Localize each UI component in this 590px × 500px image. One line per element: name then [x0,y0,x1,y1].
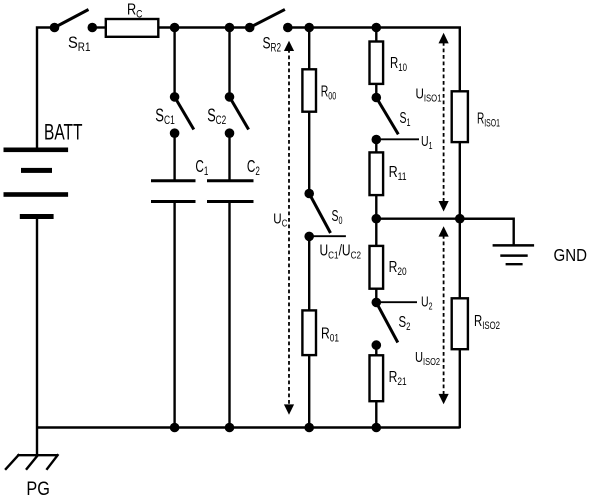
wire: mid rail to R20 [375,219,377,246]
node: top rail / R10 branch [372,23,382,33]
wire: S_R1 to R_C [92,26,106,28]
node: bottom rail / R21 [372,423,382,433]
svg-text:R11: R11 [389,164,407,183]
switch S_C1 [170,92,194,138]
svg-text:SR1: SR1 [68,33,91,54]
switch S0 [304,189,330,242]
wire: R00 to S0 [308,112,310,194]
node: top rail / C1 branch [170,23,180,33]
ground GND [493,245,534,264]
wire: S0 to R01 [308,236,310,310]
switch S_R1 [50,10,97,33]
node: mid rail / R11-R20 junction [372,214,382,224]
svg-text:S0: S0 [332,208,343,227]
wire: R10 to S1 [375,84,377,98]
resistor R_ISO2 [452,298,468,349]
svg-text:R01: R01 [321,326,339,345]
svg-text:C1: C1 [195,156,208,178]
wire: C2 to bottom rail [228,202,230,428]
resistor R_ISO1 [452,91,468,142]
switch S2 [372,298,398,350]
svg-text:R10: R10 [390,55,407,74]
svg-text:R21: R21 [389,369,407,388]
wire: R00 branch from top rail [308,28,310,70]
svg-text:PG: PG [26,478,50,500]
svg-text:UC: UC [273,211,287,230]
svg-text:RISO1: RISO1 [477,111,500,130]
wire: R20 to U2 node [375,289,377,303]
node U1 tap line [376,138,419,140]
measurement arrow U_ISO1 [439,33,449,212]
wire: mid rail to R_ISO2 [459,219,461,299]
node: bottom rail / C1 [170,423,180,433]
wire: C1 branch from top rail [173,28,175,97]
wire: C2 branch from top rail [228,28,230,97]
switch S1 [372,93,399,145]
node: bottom rail / C2 [225,423,235,433]
svg-text:UC1/UC2: UC1/UC2 [320,243,362,262]
node: top rail / C2 branch [225,23,235,33]
wire: gnd stem [460,219,514,246]
switch S_C2 [225,92,249,138]
wire: R01 to bottom rail [308,355,310,427]
svg-text:RISO2: RISO2 [474,313,500,332]
wire: top rail right segment to R_ISO1 column [288,28,460,92]
wire: C1 to bottom rail [173,202,175,428]
battery BATT [4,148,69,220]
wire: battery negative down to PG [36,219,38,455]
svg-text:RC: RC [127,2,143,21]
wire: R10 branch from top rail [375,28,377,42]
svg-text:SR2: SR2 [263,34,282,55]
wire: top rail R_C to S_R2 [159,26,250,28]
wire: battery positive up to top rail corner [37,28,55,151]
resistor R00 [302,69,316,111]
svg-text:R00: R00 [321,84,337,103]
capacitor C2 [207,181,254,202]
resistor R11 [370,152,384,195]
svg-text:GND: GND [554,245,588,265]
svg-text:U2: U2 [421,294,433,313]
node: mid rail / R_ISO junction [455,214,465,224]
svg-text:UISO2: UISO2 [415,349,440,368]
svg-text:S2: S2 [399,314,411,333]
wire: bottom rail [37,426,460,428]
wire: S1 to R11 [375,140,377,153]
svg-text:BATT: BATT [44,120,83,145]
svg-text:R20: R20 [389,259,407,278]
measurement arrow U_ISO2 [439,226,449,404]
svg-text:U1: U1 [421,133,433,152]
node: bottom rail / R01 [304,423,314,433]
wire: S_C2 to C2 [228,133,230,181]
resistor R21 [370,355,384,401]
resistor R01 [302,310,316,355]
wire: R11 to mid rail [375,195,377,219]
switch S_R2 [245,9,293,32]
node U2 tap line [376,301,417,303]
svg-text:S1: S1 [400,110,411,129]
measurement arrow U_C [284,41,294,415]
wire: mid rail [376,217,513,219]
ground PG (protective earth) [5,454,58,470]
resistor R10 [370,42,384,84]
wire: R_ISO1 to mid rail [459,142,461,219]
svg-text:SC1: SC1 [155,104,175,127]
resistor R20 [370,246,384,289]
wire: R21 to bottom rail [375,401,377,427]
wire: S_C1 to C1 [173,133,175,181]
node: top rail / R00 branch [304,23,314,33]
wire: S2 to R21 [375,345,377,355]
capacitor C1 [151,181,196,202]
resistor R_C [106,19,159,37]
svg-text:UISO1: UISO1 [416,85,442,104]
wire: R_ISO2 to bottom rail [459,349,461,428]
svg-text:SC2: SC2 [207,104,226,127]
node UC1/UC2 tap line [309,235,346,237]
svg-text:C2: C2 [247,156,260,178]
